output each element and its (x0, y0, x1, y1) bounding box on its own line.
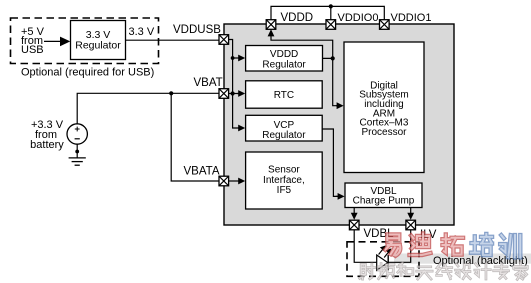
watermark char 和 (397, 263, 412, 275)
svg-text:battery: battery (30, 139, 64, 151)
pin VDBL (349, 220, 359, 230)
junction bus tee at VDDD Reg (231, 56, 235, 60)
pin ILV (406, 220, 416, 230)
ground (69, 158, 86, 165)
wire arrowhead up into VDDD pin (268, 29, 275, 36)
pin VBAT (219, 89, 229, 99)
watermark char 拓 (442, 234, 463, 254)
watermark char 训 (500, 235, 520, 257)
wire VBAT into RTC (229, 93, 240, 95)
battery V1 (+3.3 V source) (67, 124, 87, 144)
watermark char 设 (456, 264, 471, 279)
svg-text:VBAT: VBAT (194, 77, 223, 89)
wire battery bottom to ground (76, 144, 78, 158)
wire arrow into Digital Subsystem (336, 102, 344, 109)
light band behind Optional (backlight) (394, 254, 531, 264)
junction battery minus node (75, 150, 79, 154)
pin VDDIO1 (380, 20, 390, 30)
wire arrow into VDBL Charge Pump (336, 193, 345, 200)
pin VBATA (219, 176, 229, 186)
wire regulator output to VDDUSB pin (126, 39, 220, 41)
svg-text:3.3 V: 3.3 V (129, 26, 155, 38)
wire arrow +5V into regulator (44, 37, 70, 47)
watermark char 线 (437, 264, 452, 279)
block RTC (246, 81, 323, 108)
wire battery rail down to VBATA (171, 93, 219, 181)
watermark char 频 (378, 264, 394, 279)
watermark char 计 (475, 264, 490, 279)
svg-text:VDDIO0: VDDIO0 (338, 12, 379, 24)
optional USB dashed box (11, 18, 159, 64)
junction VDDD output tee (331, 56, 335, 60)
wire arrow into RTC (237, 90, 245, 97)
wire VDDD bus down to Digital Subsystem (333, 58, 338, 105)
svg-text:VDDIO1: VDDIO1 (391, 12, 432, 24)
wire battery top to VBAT rail (77, 93, 219, 123)
wire Charge Pump to ILV pin (407, 208, 414, 220)
svg-text:VDDD: VDDD (281, 12, 314, 24)
block Digital Subsystem ARM Cortex-M3 (344, 42, 424, 173)
watermark char 家 (514, 263, 528, 280)
label +3.3 V from battery (30, 119, 64, 151)
svg-text:Charge Pump: Charge Pump (353, 196, 415, 207)
wire VCP Reg output to VDBL Charge Pump (322, 129, 338, 196)
wire VDBL pin to LED anode (354, 230, 377, 262)
svg-text:Regulator: Regulator (75, 39, 121, 51)
wire stub to VDDIO0 (330, 6, 332, 19)
wire bus branch into VDDD Regulator (233, 55, 246, 62)
watermark char 迪 (410, 234, 431, 256)
wire VDDUSB into left bus (229, 40, 241, 129)
wire VDDD/VDDIO0/VDDIO1 external tie (271, 6, 384, 19)
wire VDDD Reg output to VDDD pin (271, 35, 333, 59)
svg-text:VDDUSB: VDDUSB (173, 24, 221, 36)
LED emission arrows (379, 245, 392, 257)
block Sensor Interface IF5 (246, 152, 323, 209)
pin VDDIO0 (326, 20, 336, 30)
watermark char 射 (360, 264, 375, 279)
regulator U1 (3.3 V Regulator) (71, 21, 126, 60)
watermark char 易 (385, 234, 400, 255)
wire LED cathode to ILV pin (388, 230, 411, 262)
svg-text:USB: USB (21, 44, 44, 56)
junction battery rail split (169, 91, 173, 95)
svg-text:RTC: RTC (274, 90, 294, 101)
watermark char 专 (494, 264, 509, 278)
wire arrow into VCP Regulator (238, 125, 245, 132)
block VDDD Regulator (246, 46, 323, 72)
chip body (IC outline) (224, 24, 454, 225)
svg-text:Processor: Processor (361, 127, 407, 138)
pin VDDD (266, 20, 276, 30)
label +5V from USB (21, 26, 45, 56)
svg-text:Optional (required for USB): Optional (required for USB) (21, 67, 154, 79)
optional backlight dashed box (347, 242, 419, 276)
block VCP Regulator (246, 115, 323, 141)
svg-text:IF5: IF5 (277, 185, 292, 196)
pin VDDUSB (219, 35, 229, 45)
junction bus tee at VBAT (231, 91, 235, 95)
svg-text:VBATA: VBATA (184, 166, 220, 178)
svg-text:Regulator: Regulator (262, 130, 306, 141)
svg-text:Regulator: Regulator (262, 60, 306, 71)
block VDBL Charge Pump (345, 183, 422, 208)
watermark char 天 (417, 267, 432, 279)
wire wire VBATA into Sensor Interface (229, 178, 246, 185)
wire Charge Pump to VDBL pin (351, 208, 358, 220)
LED D1 backlight (377, 255, 389, 270)
junction top tie at VDDIO0 (329, 4, 333, 8)
watermark char 培 (471, 234, 492, 255)
